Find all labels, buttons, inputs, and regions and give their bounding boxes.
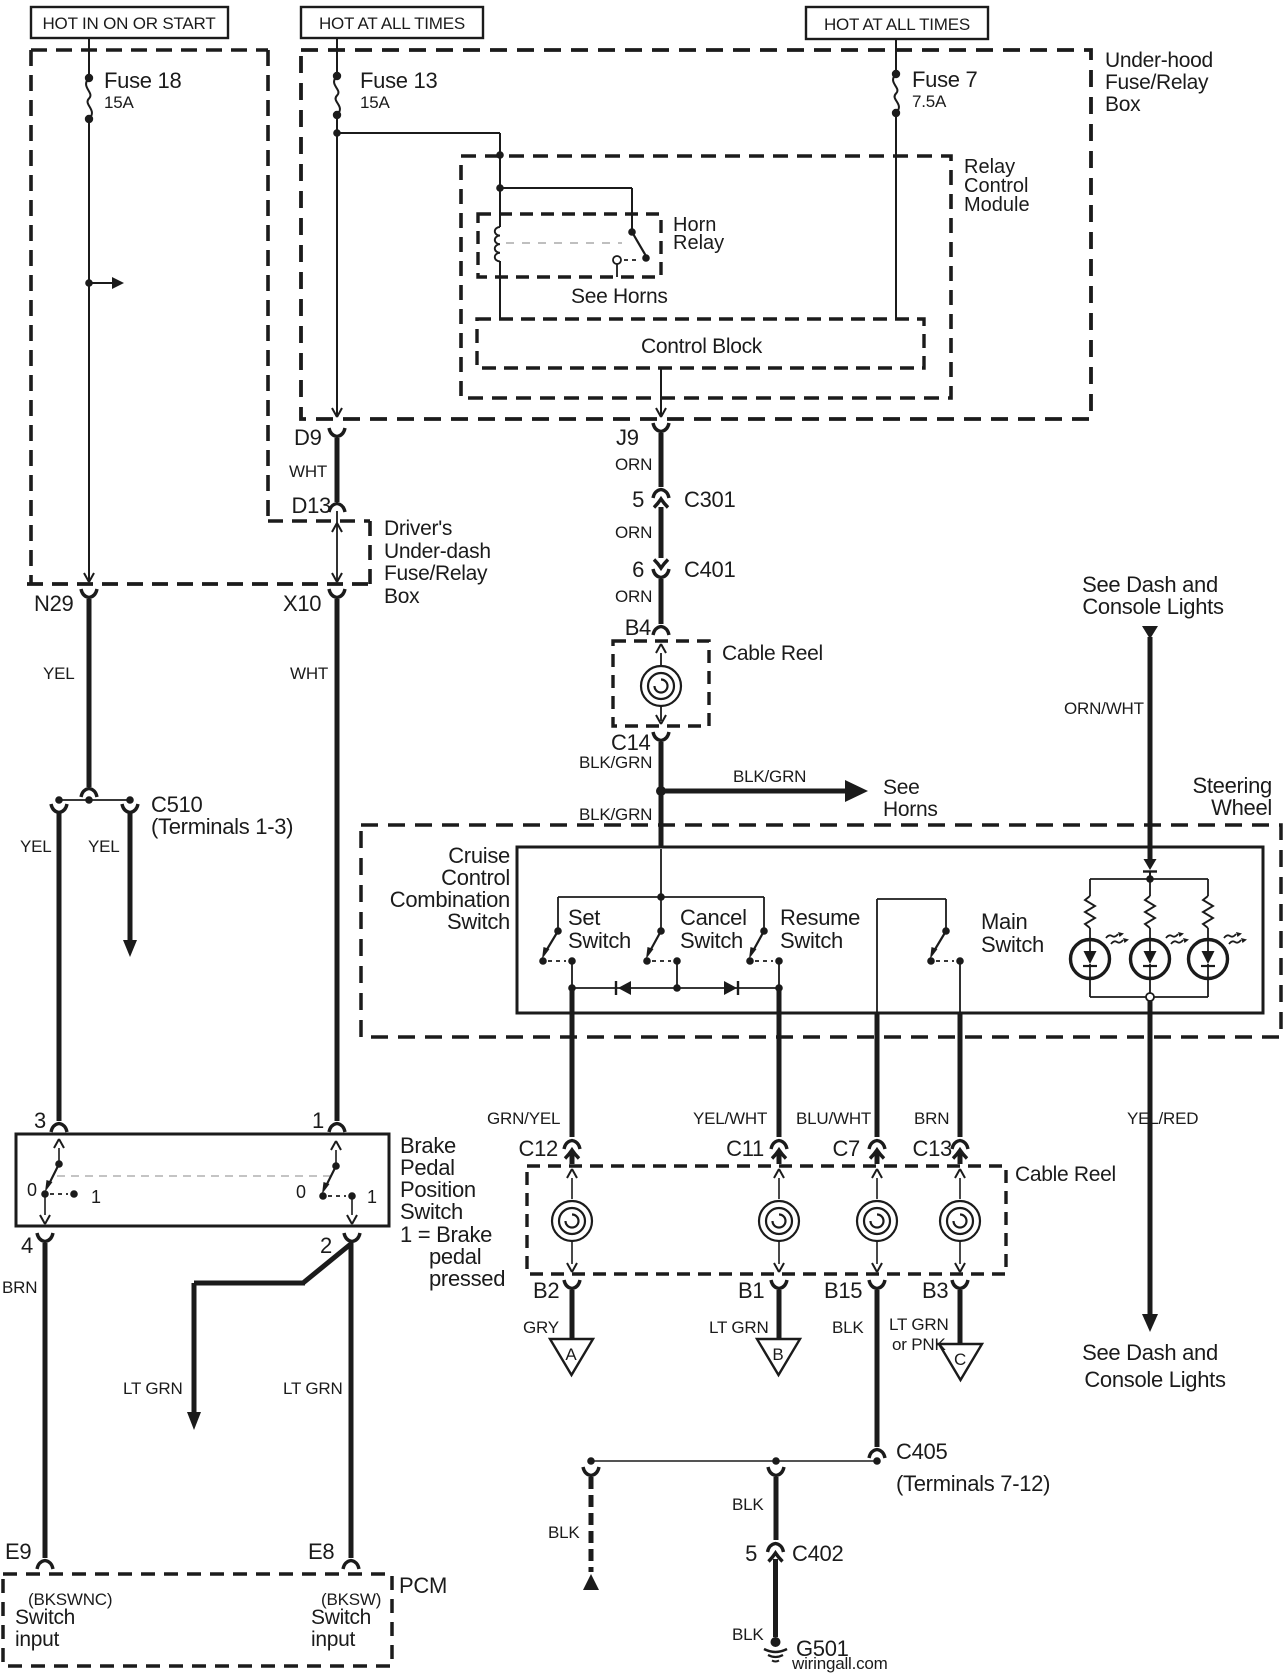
arrow crossing box edge at N29 <box>84 573 94 582</box>
wire: fuse 13 feed <box>336 38 338 76</box>
svg-text:YEL: YEL <box>88 837 120 856</box>
wire ORN C401 to B4 <box>659 579 664 624</box>
wire LT GRN terminal 2 to E8 <box>349 1243 354 1558</box>
wire BLK/GRN into cruise switch <box>659 791 664 848</box>
svg-text:Wheel: Wheel <box>1211 795 1272 820</box>
wire ORN C301 to C401 <box>659 507 664 558</box>
fuse F18 15A <box>85 74 93 82</box>
wire: coil to control block <box>499 261 501 319</box>
svg-text:Switch: Switch <box>981 932 1044 957</box>
svg-text:D9: D9 <box>294 425 322 450</box>
svg-text:Main: Main <box>981 909 1028 934</box>
arrow: BLK/GRN to See Horns <box>661 789 846 794</box>
svg-text:Switch: Switch <box>400 1199 463 1224</box>
wire BLK dashed continuation <box>589 1477 594 1572</box>
cable reel coil B3 <box>955 1169 965 1178</box>
box: Cruise Control Combination Switch <box>517 847 1263 1013</box>
resistor R1 <box>1089 879 1091 896</box>
svg-text:C401: C401 <box>684 557 735 582</box>
connector B2 <box>564 1280 580 1289</box>
box: Cable Reel (lower) <box>527 1166 1006 1274</box>
wire BLU/WHT main switch feed C7 <box>875 1014 880 1137</box>
box: Horn Relay <box>478 214 661 277</box>
svg-text:HOT IN ON OR START: HOT IN ON OR START <box>42 14 215 33</box>
svg-text:BRN: BRN <box>2 1278 37 1297</box>
svg-text:Set: Set <box>568 905 600 930</box>
box: Drivers Under-dash Fuse/Relay Box <box>268 519 370 523</box>
svg-text:See Horns: See Horns <box>571 285 668 308</box>
wire WHT X10 to brake switch terminal 1 <box>335 599 340 1121</box>
svg-text:B2: B2 <box>533 1278 559 1303</box>
wire: ground bus <box>591 1460 877 1462</box>
svg-text:Fuse 7: Fuse 7 <box>912 67 978 92</box>
svg-text:Switch: Switch <box>680 928 743 953</box>
svg-text:BLK: BLK <box>732 1625 764 1644</box>
Resume Switch <box>763 897 765 931</box>
svg-text:ORN: ORN <box>615 455 652 474</box>
svg-text:C301: C301 <box>684 487 735 512</box>
connector C12 <box>564 1141 580 1150</box>
wire GRN/YEL set switch to C12 <box>570 988 575 1137</box>
svg-text:GRN/YEL: GRN/YEL <box>487 1109 560 1128</box>
svg-text:N29: N29 <box>34 591 74 616</box>
wire D13 to X10 <box>336 511 338 581</box>
connector C14 <box>653 732 669 741</box>
box: Control Block <box>477 319 924 368</box>
connector C7 <box>869 1141 885 1150</box>
resistor R2 <box>1149 879 1151 896</box>
svg-text:BRN: BRN <box>914 1109 949 1128</box>
wire YEL stub with arrow <box>128 813 133 941</box>
svg-text:B4: B4 <box>625 615 651 640</box>
svg-text:Switch: Switch <box>780 928 843 953</box>
mechanical link (dotted) <box>57 1175 330 1177</box>
LED bus bottom <box>1090 978 1208 997</box>
svg-text:GRY: GRY <box>523 1318 559 1337</box>
connector C402 pin 5 <box>768 1544 784 1553</box>
box: PCM <box>3 1574 392 1666</box>
brake switch left <box>54 1139 64 1148</box>
svg-text:wiringall.com: wiringall.com <box>791 1654 888 1673</box>
svg-text:Fuse 13: Fuse 13 <box>360 68 437 93</box>
svg-text:C13: C13 <box>913 1136 953 1161</box>
LED 2 <box>1131 940 1170 979</box>
wire BLK to C402 <box>774 1477 779 1540</box>
fuse F7 7.5A <box>895 40 897 74</box>
svg-text:C12: C12 <box>519 1136 559 1161</box>
brake switch right <box>331 1141 341 1150</box>
connector on ground bus (right) <box>768 1467 784 1476</box>
svg-text:Switch: Switch <box>568 928 631 953</box>
destination triangle B <box>757 1339 800 1375</box>
svg-text:Control Block: Control Block <box>641 335 763 358</box>
box: Steering Wheel <box>361 825 1281 1037</box>
svg-text:7.5A: 7.5A <box>912 92 947 111</box>
svg-text:YEL: YEL <box>43 664 75 683</box>
wire YEL N29 to C510 <box>87 599 92 787</box>
svg-text:See: See <box>883 776 919 799</box>
svg-text:Fuse 18: Fuse 18 <box>104 68 181 93</box>
fuse F13 15A <box>333 72 341 80</box>
svg-text:BLK: BLK <box>832 1318 864 1337</box>
svg-text:C405: C405 <box>896 1439 947 1464</box>
svg-text:15A: 15A <box>104 93 135 112</box>
svg-text:LT GRN: LT GRN <box>889 1315 949 1334</box>
box: Brake Pedal Position Switch <box>16 1134 389 1226</box>
svg-text:Cable Reel: Cable Reel <box>722 642 823 665</box>
wire: feed inside cruise switch <box>660 849 662 897</box>
wire ORN J9 to C301 <box>659 433 664 487</box>
wire: to horn relay switch <box>500 188 632 232</box>
svg-text:(Terminals 1-3): (Terminals 1-3) <box>151 814 293 839</box>
svg-text:ORN: ORN <box>615 587 652 606</box>
svg-text:C7: C7 <box>832 1136 860 1161</box>
wire LT GRN or PNK to C <box>958 1290 963 1343</box>
svg-text:BLK: BLK <box>548 1523 580 1542</box>
svg-text:HOT AT ALL TIMES: HOT AT ALL TIMES <box>319 14 465 33</box>
wire: top bus of switches <box>558 896 764 898</box>
svg-text:ORN: ORN <box>615 523 652 542</box>
svg-text:YEL/WHT: YEL/WHT <box>693 1109 767 1128</box>
wire BRN main switch to C13 <box>958 1014 963 1137</box>
Set Switch <box>557 897 559 931</box>
LED 3 <box>1189 940 1228 979</box>
svg-text:HOT AT ALL TIMES: HOT AT ALL TIMES <box>824 15 970 34</box>
connector on ground bus (left) <box>583 1467 599 1476</box>
junction in relay control module <box>496 184 504 192</box>
svg-text:D13: D13 <box>292 493 332 518</box>
svg-text:WHT: WHT <box>289 462 327 481</box>
svg-text:(Terminals 7-12): (Terminals 7-12) <box>896 1471 1050 1496</box>
wire BRN terminal 4 to E9 <box>43 1243 48 1558</box>
label box: HOT IN ON OR START <box>31 7 228 38</box>
svg-text:1: 1 <box>91 1187 101 1207</box>
svg-text:YEL/RED: YEL/RED <box>1127 1109 1198 1128</box>
wire WHT D9-D13 <box>335 438 340 502</box>
svg-text:A: A <box>565 1345 577 1364</box>
LED 1 <box>1071 940 1110 979</box>
box: left power box (fuse 18) <box>31 48 268 52</box>
svg-text:0: 0 <box>296 1182 306 1202</box>
svg-text:Box: Box <box>384 585 420 608</box>
destination triangle C <box>939 1344 982 1380</box>
diode D1 (points left) <box>615 981 617 995</box>
connector B15 <box>869 1280 885 1289</box>
connector C301 pin 5 <box>653 490 669 499</box>
svg-text:Under-hood: Under-hood <box>1105 49 1213 72</box>
wire YEL to terminal 3 <box>57 813 62 1121</box>
svg-text:input: input <box>311 1628 356 1651</box>
wire LT GRN to B <box>777 1290 782 1338</box>
svg-text:1: 1 <box>367 1187 377 1207</box>
diode D3 on lamp feed <box>1144 859 1157 870</box>
svg-text:Resume: Resume <box>780 905 860 930</box>
cable reel coil (upper) <box>656 644 666 653</box>
svg-text:E8: E8 <box>308 1539 334 1564</box>
svg-text:pressed: pressed <box>429 1266 505 1291</box>
svg-text:Under-dash: Under-dash <box>384 540 491 563</box>
Main Switch <box>877 899 946 1012</box>
box: Under-hood Fuse/Relay Box <box>301 50 1091 419</box>
diode D2 (points right) <box>724 981 737 995</box>
wire: fuse 18 down to N29 <box>88 119 90 581</box>
svg-text:Cancel: Cancel <box>680 905 747 930</box>
wire: lower bus with diodes <box>572 961 779 988</box>
svg-text:5: 5 <box>632 487 644 512</box>
wire YEL/RED to dash lights <box>1148 1001 1153 1315</box>
svg-text:4: 4 <box>21 1233 33 1258</box>
wire: branch to relay control module <box>337 133 500 188</box>
connector B3 <box>952 1280 968 1289</box>
box: shared bottom edge of fuse boxes <box>27 582 372 586</box>
svg-text:E9: E9 <box>5 1539 31 1564</box>
label box: HOT AT ALL TIMES (right) <box>806 7 988 39</box>
wire: fuse 18 feed <box>88 38 90 78</box>
cable reel coil B2 <box>567 1169 577 1178</box>
svg-text:C: C <box>954 1350 966 1369</box>
connector C13 <box>952 1141 968 1150</box>
svg-text:BLK: BLK <box>732 1495 764 1514</box>
svg-text:Box: Box <box>1105 93 1141 116</box>
wire LT GRN branch with arrow <box>194 1243 352 1413</box>
Cancel Switch <box>660 897 662 931</box>
box: Relay Control Module <box>461 156 951 398</box>
junction to horns <box>656 786 666 796</box>
svg-text:Console Lights: Console Lights <box>1082 594 1224 619</box>
svg-text:Horns: Horns <box>883 798 938 821</box>
wire BLK to G501 <box>773 1559 778 1637</box>
cable reel coil B1 <box>774 1169 784 1178</box>
svg-text:LT GRN: LT GRN <box>283 1379 343 1398</box>
ground G501 <box>771 1637 781 1647</box>
mechanical link (dash-dot) <box>506 242 622 244</box>
svg-text:C14: C14 <box>611 730 651 755</box>
svg-text:BLK/GRN: BLK/GRN <box>579 753 652 772</box>
connector B1 <box>771 1280 787 1289</box>
svg-text:ORN/WHT: ORN/WHT <box>1064 699 1144 718</box>
svg-text:BLK/GRN: BLK/GRN <box>579 805 652 824</box>
svg-text:input: input <box>15 1628 60 1651</box>
svg-text:YEL: YEL <box>20 837 52 856</box>
connector C401 pin 6 <box>654 560 668 569</box>
wire YEL/WHT resume switch to C11 <box>777 988 782 1137</box>
wire: fuse 13 to D9 <box>336 115 338 415</box>
svg-text:PCM: PCM <box>399 1573 447 1598</box>
arrow crossing box edge at D9 <box>332 408 342 417</box>
svg-text:BLK/GRN: BLK/GRN <box>733 767 806 786</box>
wire: fuse 7 to control block <box>895 113 897 319</box>
svg-text:Cable Reel: Cable Reel <box>1015 1163 1116 1186</box>
svg-text:WHT: WHT <box>290 664 328 683</box>
svg-text:1: 1 <box>312 1108 324 1133</box>
connector C405 <box>869 1450 885 1459</box>
wire BLK to C405 <box>875 1290 880 1447</box>
svg-text:6: 6 <box>632 557 644 582</box>
svg-text:Fuse/Relay: Fuse/Relay <box>1105 71 1209 94</box>
svg-text:Switch: Switch <box>311 1606 371 1629</box>
horn relay coil <box>499 188 501 227</box>
svg-text:J9: J9 <box>616 425 639 450</box>
destination triangle A <box>550 1339 593 1375</box>
svg-text:X10: X10 <box>283 591 321 616</box>
svg-text:B3: B3 <box>922 1278 948 1303</box>
connector N29 <box>81 589 97 598</box>
svg-text:Switch: Switch <box>15 1606 75 1629</box>
junction + branch arrow to other circuit <box>85 279 93 287</box>
svg-text:Console Lights: Console Lights <box>1084 1367 1226 1392</box>
svg-text:5: 5 <box>745 1541 757 1566</box>
connector C510 (terminals 1-3) <box>81 789 97 798</box>
svg-text:0: 0 <box>27 1180 37 1200</box>
wire: control block output to J9 <box>660 368 662 415</box>
LED bus top <box>1146 875 1154 883</box>
svg-text:B1: B1 <box>738 1278 764 1303</box>
svg-text:C11: C11 <box>726 1136 764 1161</box>
svg-text:Fuse/Relay: Fuse/Relay <box>384 562 488 585</box>
svg-text:Switch: Switch <box>447 909 510 934</box>
svg-text:BLU/WHT: BLU/WHT <box>796 1109 871 1128</box>
label box: HOT AT ALL TIMES (middle) <box>301 7 483 38</box>
svg-text:B: B <box>772 1345 783 1364</box>
svg-text:LT GRN: LT GRN <box>123 1379 183 1398</box>
wire GRY to A <box>570 1290 575 1338</box>
horn relay switch <box>628 228 636 236</box>
resistor R3 <box>1207 879 1209 896</box>
svg-text:2: 2 <box>320 1233 332 1258</box>
connector C11 <box>771 1141 787 1150</box>
wire BLK/GRN C14 down <box>659 742 664 789</box>
svg-text:Module: Module <box>964 194 1030 216</box>
svg-text:LT GRN: LT GRN <box>709 1318 769 1337</box>
svg-text:Driver's: Driver's <box>384 517 452 540</box>
svg-text:3: 3 <box>34 1108 46 1133</box>
svg-text:Relay: Relay <box>673 232 724 254</box>
svg-text:See Dash and: See Dash and <box>1082 1340 1218 1365</box>
box: Cable Reel (upper) <box>613 641 709 726</box>
cable reel coil B15 <box>872 1169 882 1178</box>
svg-text:B15: B15 <box>824 1278 862 1303</box>
svg-text:15A: 15A <box>360 93 391 112</box>
svg-text:C402: C402 <box>792 1541 843 1566</box>
